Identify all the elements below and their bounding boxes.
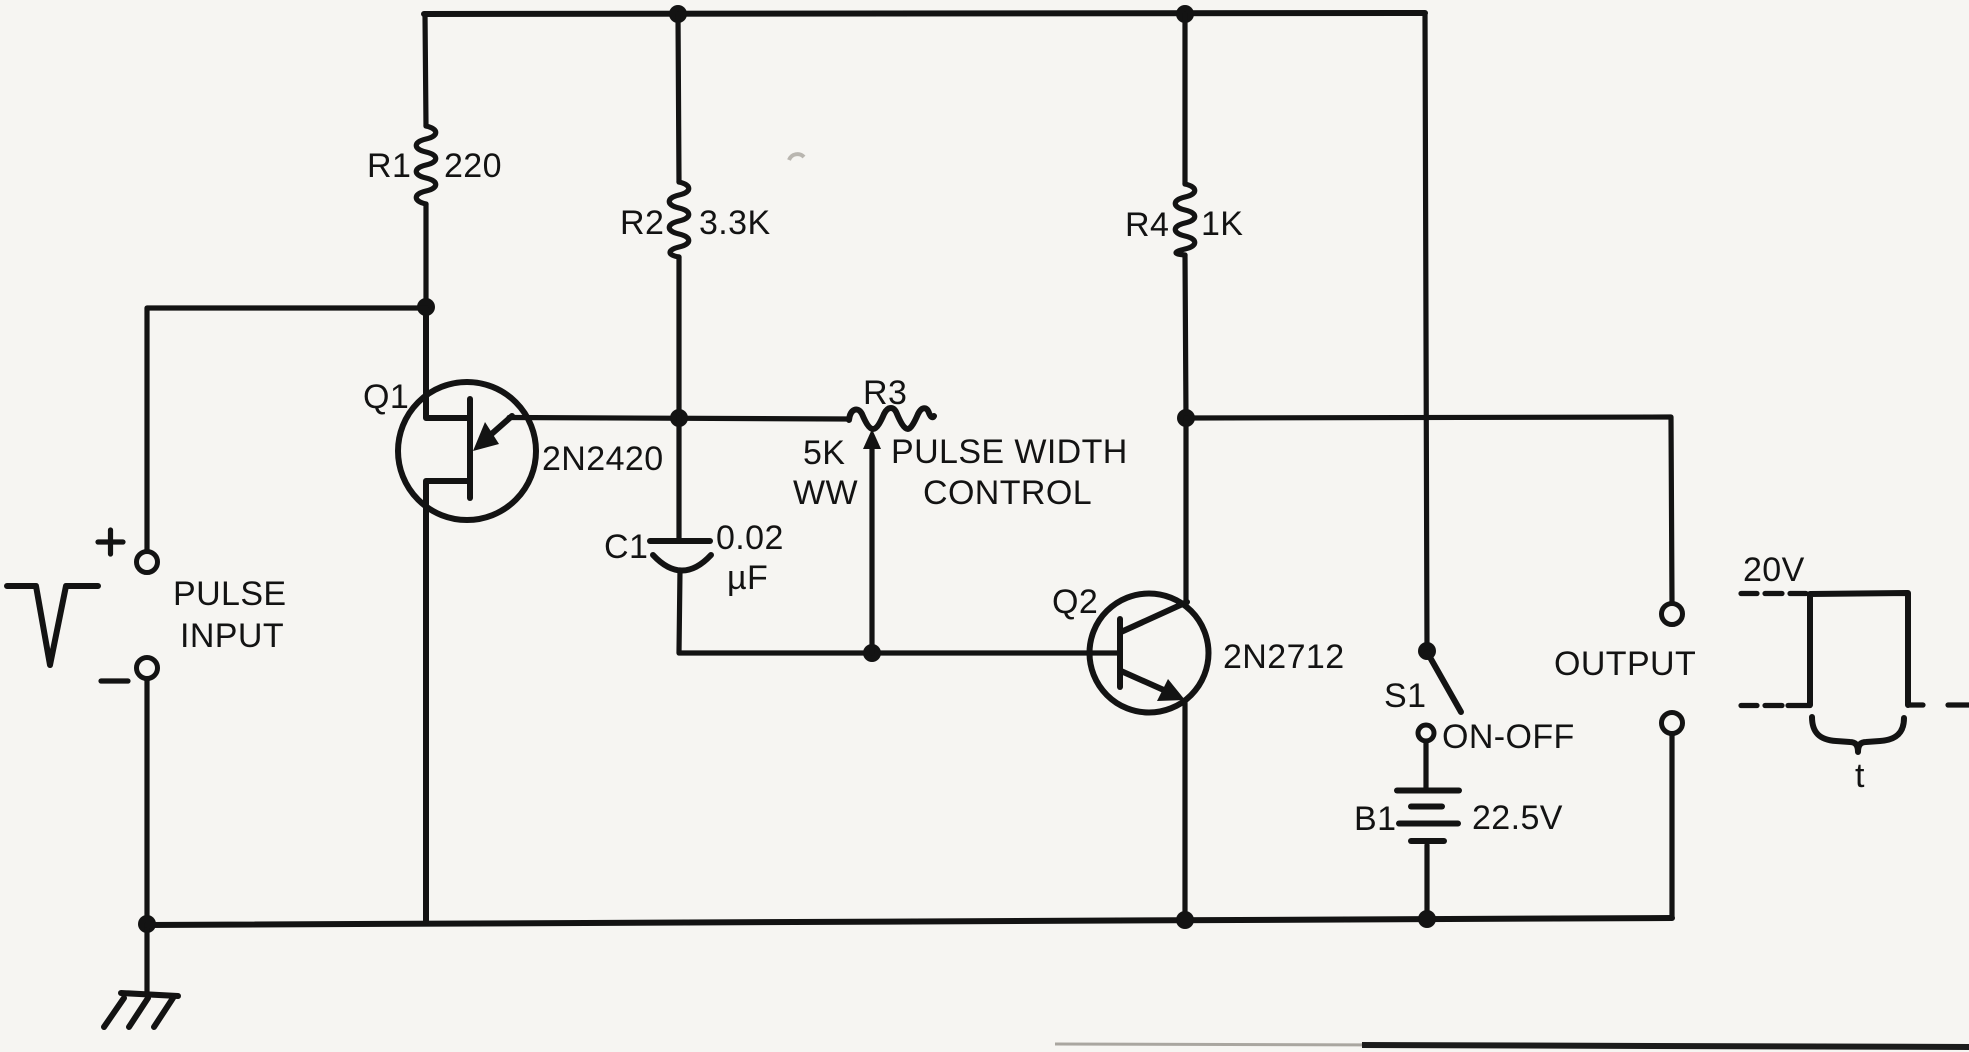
wire pulse input top	[147, 308, 426, 551]
node R1 / pulse input / Q1	[417, 298, 435, 316]
svg-text:2N2420: 2N2420	[542, 440, 664, 478]
wire minus terminal to ground rail	[144, 679, 149, 925]
svg-text:WW: WW	[793, 474, 858, 512]
ground	[104, 993, 178, 1027]
wire R2 node to C1	[676, 418, 681, 538]
svg-text:CONTROL: CONTROL	[923, 474, 1092, 512]
wire R1 bottom lead	[423, 204, 428, 308]
wire top rail V+	[424, 13, 1425, 14]
svg-text:B1: B1	[1354, 800, 1396, 838]
wire emitter node row	[509, 418, 849, 420]
switch S1 blade	[1427, 652, 1461, 712]
capacitor C1	[650, 541, 711, 571]
node bottom rail / input	[138, 915, 156, 933]
label plus	[98, 530, 123, 554]
output terminal lower	[1662, 713, 1683, 734]
svg-text:2N2712: 2N2712	[1223, 638, 1345, 676]
wire Q2 emitter to bottom rail	[1182, 702, 1187, 920]
svg-text:22.5V: 22.5V	[1472, 799, 1563, 837]
node S1 top	[1418, 642, 1436, 660]
potentiometer R3	[849, 408, 934, 429]
svg-text:5K: 5K	[803, 434, 845, 472]
wire R1 top lead	[425, 14, 426, 126]
wire R4 bottom lead	[1185, 255, 1186, 418]
Q1 emitter diagonal	[487, 416, 512, 438]
node base row / R3 wiper	[863, 644, 881, 662]
svg-text:Q1: Q1	[363, 378, 409, 416]
svg-text:R4: R4	[1125, 206, 1169, 244]
R3 wiper arrowhead	[863, 429, 881, 449]
node top rail / R4	[1176, 5, 1194, 23]
svg-text:0.02: 0.02	[716, 519, 784, 557]
brace under pulse	[1812, 717, 1904, 752]
wire R2 bottom lead	[676, 257, 681, 418]
node Q2 / bottom rail	[1176, 911, 1194, 929]
svg-text:ON-OFF: ON-OFF	[1442, 718, 1575, 756]
page edge line bottom right faint	[1055, 1044, 1400, 1045]
hole punch artifact	[789, 154, 804, 160]
output waveform pulse	[1810, 593, 1908, 705]
Q2 emitter diagonal	[1121, 671, 1166, 691]
node R4 / output row	[1177, 409, 1195, 427]
svg-text:OUTPUT: OUTPUT	[1554, 645, 1696, 683]
svg-text:Q2: Q2	[1052, 583, 1098, 621]
output waveform baseline right dashes	[1908, 702, 1969, 707]
resistor R1	[416, 126, 436, 204]
Q2 emitter arrowhead	[1157, 679, 1185, 701]
wire R4 top lead	[1182, 14, 1187, 184]
Q2 bar	[1117, 619, 1123, 687]
wire S1 column from top rail	[1425, 13, 1427, 651]
output waveform dashed top level	[1741, 591, 1806, 596]
node top rail / R2	[669, 5, 687, 23]
transistor Q1 circle	[398, 382, 536, 520]
node emitter / R2	[670, 409, 688, 427]
Q1 bar	[467, 399, 473, 498]
svg-text:220: 220	[444, 147, 502, 185]
R3 wiper arrow	[869, 444, 874, 653]
plus terminal	[137, 552, 158, 573]
wire R2 top lead	[678, 14, 679, 182]
Q1 emitter arrowhead	[473, 422, 499, 451]
wire R4 node to Q2 collector	[1183, 418, 1188, 603]
Q2 collector diagonal	[1121, 602, 1187, 632]
svg-text:R3: R3	[863, 374, 907, 412]
label minus	[101, 678, 128, 683]
node B1 / bottom rail	[1418, 910, 1436, 928]
svg-text:µF: µF	[727, 559, 768, 597]
svg-text:1K: 1K	[1201, 205, 1243, 243]
wire C1 to base row	[679, 570, 1117, 653]
wire Q1 base-1 lead	[426, 481, 468, 922]
wire bottom rail	[147, 918, 1672, 925]
svg-text:C1: C1	[604, 528, 648, 566]
S1 lower contact	[1418, 725, 1434, 741]
wire S1 to battery	[1423, 741, 1428, 788]
svg-text:20V: 20V	[1743, 551, 1805, 589]
resistor R2	[669, 182, 689, 257]
output waveform baseline left dashes	[1741, 703, 1810, 708]
wire battery to bottom rail	[1424, 845, 1429, 919]
wire ground stem	[144, 925, 149, 993]
output terminal upper	[1662, 604, 1683, 625]
svg-text:t: t	[1855, 757, 1865, 795]
svg-text:PULSE: PULSE	[173, 575, 287, 613]
svg-text:R2: R2	[620, 204, 664, 242]
transistor Q2 circle	[1090, 594, 1209, 713]
svg-text:3.3K: 3.3K	[699, 204, 771, 242]
page edge line bottom right	[1362, 1045, 1969, 1047]
svg-text:INPUT: INPUT	[180, 617, 284, 655]
wire output lower to bottom rail	[1669, 734, 1674, 918]
svg-text:R1: R1	[367, 147, 411, 185]
svg-text:S1: S1	[1384, 677, 1426, 715]
pulse input waveform symbol	[7, 586, 98, 665]
wire output row	[1186, 417, 1672, 603]
resistor R4	[1175, 184, 1195, 255]
minus terminal	[137, 658, 158, 679]
wire Q1 base-2 lead	[426, 308, 468, 418]
svg-text:PULSE WIDTH: PULSE WIDTH	[891, 433, 1128, 471]
battery B1	[1397, 791, 1459, 842]
